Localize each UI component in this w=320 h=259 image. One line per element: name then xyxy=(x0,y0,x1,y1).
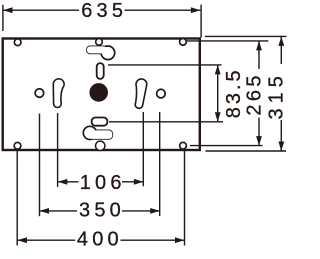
dim 635 extension line right xyxy=(200,5,202,38)
svg-text:635: 635 xyxy=(81,0,127,22)
svg-text:106: 106 xyxy=(80,172,126,194)
mounting hole top-center xyxy=(96,39,103,46)
teardrop slot mid-left xyxy=(53,79,64,108)
ext line x184 (400 right) xyxy=(184,149,186,246)
ext line x160 (350 right) xyxy=(159,112,161,216)
round hole at bottom edge xyxy=(96,141,105,150)
svg-text:83.5: 83.5 xyxy=(223,67,245,118)
svg-text:315: 315 xyxy=(266,71,288,119)
dim 400 line xyxy=(17,239,75,241)
dim 106 line xyxy=(58,181,79,183)
dim 83.5 extension line top xyxy=(108,64,222,66)
dim 350 line xyxy=(40,210,78,212)
keyhole slot top-center xyxy=(87,46,115,60)
ext line x17 (400 left) xyxy=(16,149,18,246)
dim 635 line xyxy=(3,9,79,11)
plate outline xyxy=(3,39,200,151)
dim 83.5 line xyxy=(217,65,219,122)
svg-text:265: 265 xyxy=(244,72,266,116)
screw hole mid-left xyxy=(35,89,44,98)
svg-text:350: 350 xyxy=(79,200,125,222)
dim 265 extension line top xyxy=(186,40,268,42)
mounting hole top-right xyxy=(180,39,187,46)
svg-text:400: 400 xyxy=(77,229,123,251)
dim 83.5 extension line bottom xyxy=(109,121,223,123)
rectangular slot lower-center xyxy=(92,118,108,126)
teardrop slot mid-right xyxy=(135,79,147,108)
dim 315 extension line top xyxy=(205,35,287,37)
mounting hole bottom-left xyxy=(14,142,21,149)
mounting hole bottom-right xyxy=(180,142,187,149)
keyhole slot bottom-center xyxy=(83,126,112,139)
ext line x57 (106 left) xyxy=(57,113,59,187)
ext line x143 (106 right) xyxy=(142,112,144,186)
mounting hole top-left xyxy=(14,39,21,46)
dim 265 line xyxy=(258,41,260,69)
dim 315 extension line bottom xyxy=(206,150,287,152)
dim 635 extension line left xyxy=(2,5,4,31)
oval slot upper-center xyxy=(97,63,104,79)
dim 265 extension line bottom xyxy=(190,145,263,147)
screw hole mid-right xyxy=(157,89,166,98)
ext line x39 (350 left) xyxy=(39,114,41,217)
dim 315 line xyxy=(280,36,282,64)
center wiring hole (filled) xyxy=(89,83,108,102)
